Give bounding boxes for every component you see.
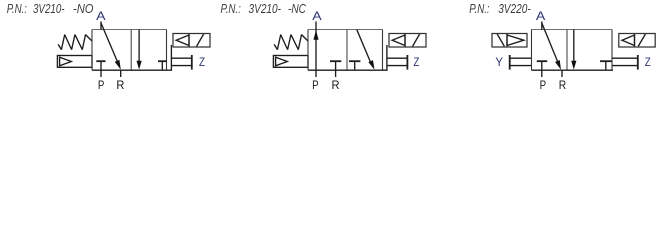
body bottom edge V2 — [308, 69, 388, 71]
port P blocked T V1 — [96, 61, 105, 77]
label P.N. 3V210-NC — [221, 1, 307, 16]
port R blocked T V2 — [330, 61, 341, 77]
port P blocked T V3 — [537, 61, 547, 77]
svg-text:3V220-: 3V220- — [498, 1, 531, 16]
solenoid U2 — [389, 34, 426, 48]
pilot port z lines V2 — [387, 45, 408, 70]
label P.N. 3V220 — [469, 1, 531, 16]
pilot port z lines V1 — [171, 45, 191, 70]
flow path A-R diagonal V3 — [542, 23, 558, 62]
valve body V1 — [92, 30, 167, 71]
up arrowhead V2 — [313, 30, 318, 40]
port A line V3 — [541, 22, 543, 30]
svg-text:A: A — [96, 11, 106, 23]
svg-text:Z: Z — [199, 57, 205, 69]
arrowhead V2 diagonal — [368, 60, 374, 70]
divider V1 — [130, 30, 132, 71]
svg-text:R: R — [332, 78, 340, 92]
svg-text:P: P — [98, 78, 105, 92]
svg-text:P: P — [312, 78, 319, 92]
svg-text:-NC: -NC — [288, 1, 306, 16]
svg-text:3V210-: 3V210- — [249, 1, 282, 16]
svg-text:P.N.:: P.N.: — [7, 1, 28, 16]
right solenoid U3b — [619, 34, 655, 48]
valve body V2 — [308, 30, 383, 71]
manual override V1 — [57, 56, 92, 68]
svg-text:-NO: -NO — [73, 1, 94, 16]
right box blocked T V2 — [349, 61, 360, 70]
pilot port z lines V3 — [612, 55, 638, 70]
svg-text:Z: Z — [645, 57, 651, 69]
svg-text:R: R — [559, 78, 567, 92]
arrowhead V1 diagonal — [115, 60, 121, 70]
spring V2 — [274, 35, 308, 50]
svg-text:3V210-: 3V210- — [33, 1, 65, 16]
right box blocked T V3 — [600, 61, 612, 70]
divider V3 — [566, 30, 568, 71]
svg-text:A: A — [536, 11, 546, 23]
right box down arrow V3 — [571, 30, 576, 70]
svg-text:P.N.:: P.N.: — [469, 1, 490, 16]
svg-text:P: P — [540, 78, 547, 92]
right box blocked T V1 — [158, 61, 167, 70]
body bottom edge V1 — [92, 69, 172, 71]
svg-text:P.N.:: P.N.: — [221, 1, 242, 16]
svg-text:Z: Z — [413, 57, 419, 69]
solenoid U1 — [173, 34, 210, 48]
port A-P through line V2 — [315, 22, 317, 78]
flow path A-R diagonal V1 — [101, 23, 118, 63]
divider V2 — [346, 30, 348, 71]
svg-text:A: A — [312, 11, 322, 23]
manual override V2 — [273, 56, 308, 68]
port R stub V1 — [120, 70, 122, 77]
left solenoid U3a — [492, 34, 527, 48]
right box diagonal V2 — [357, 30, 372, 65]
valve body V3 — [532, 30, 613, 71]
port A line V1 — [100, 22, 102, 30]
port R stub V3 — [561, 70, 563, 77]
label P.N. 3V210-NO — [7, 1, 94, 16]
pilot port Y lines V3 — [510, 55, 532, 70]
body bottom edge V3 — [532, 69, 614, 71]
svg-text:Y: Y — [495, 57, 503, 69]
right box down arrow V1 — [137, 30, 142, 70]
svg-text:R: R — [116, 78, 124, 92]
spring V1 — [58, 35, 92, 50]
arrowhead V3 diagonal — [555, 60, 561, 70]
